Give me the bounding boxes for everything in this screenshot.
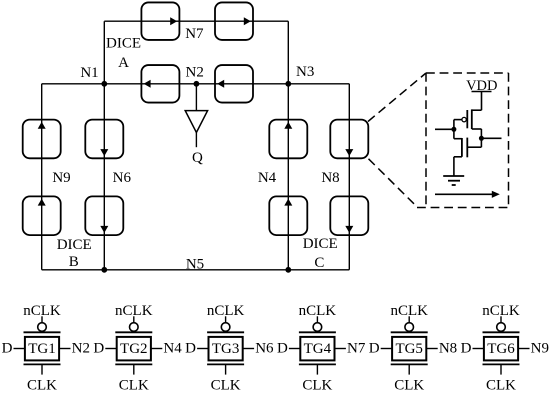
wire: D lead (TG5) bbox=[381, 348, 392, 350]
dashed inset box right edge bbox=[508, 73, 510, 208]
node: inset input junction dot bbox=[451, 127, 456, 132]
transistor NMOS channel line bbox=[461, 138, 463, 157]
svg-text:N6: N6 bbox=[113, 170, 132, 186]
op-amp/inverter triangle (Q driver) bbox=[185, 111, 207, 133]
node N1 junction dot bbox=[101, 81, 107, 87]
TG4 bottom gate plate bbox=[299, 363, 336, 365]
wire: nCLK stem (TG2) bbox=[133, 316, 135, 323]
wire: inverter output to Q bbox=[195, 133, 197, 148]
wire: CLK stem (TG3) bbox=[225, 364, 227, 374]
svg-text:C: C bbox=[314, 255, 324, 271]
dashed callout line upper bbox=[368, 73, 426, 122]
svg-text:N7: N7 bbox=[347, 340, 366, 356]
wire: input vertical bbox=[453, 120, 455, 139]
svg-text:N2: N2 bbox=[72, 340, 90, 356]
junction dot bottom-left (N1 column / N5) bbox=[101, 267, 107, 273]
TG4 top gate plate bbox=[299, 331, 336, 333]
svg-text:TG1: TG1 bbox=[28, 341, 56, 357]
wire: output lead (TG1) bbox=[60, 348, 71, 350]
inverter box N1/N6 column upper (arrow down) bbox=[85, 120, 123, 159]
wire: N2 to inverter input bbox=[195, 84, 197, 111]
transistor NMOS gate line bbox=[466, 138, 468, 158]
inverter box outer-right/N8 column lower (arrow down) bbox=[330, 196, 368, 235]
wire: CLK stem (TG5) bbox=[408, 364, 410, 374]
wire: input to PMOS gate bubble bbox=[454, 119, 462, 121]
svg-text:N9: N9 bbox=[52, 170, 70, 186]
wire: input jog to NMOS channel top bbox=[454, 138, 462, 140]
TG2 top gate plate bbox=[115, 331, 152, 333]
wire: inset input lead bbox=[435, 128, 454, 130]
inverter box N3/N4 column lower (arrow up) bbox=[269, 196, 307, 235]
dashed inset box left edge bbox=[425, 73, 427, 208]
VDD power bar bbox=[472, 91, 492, 93]
wire: outer-left column bbox=[41, 84, 43, 270]
nCLK inverting bubble (TG4) bbox=[313, 323, 322, 332]
transmission gate cell TG5 bbox=[369, 303, 457, 394]
svg-text:D: D bbox=[185, 340, 196, 356]
wire: D lead (TG4) bbox=[289, 348, 300, 350]
wire: nCLK stem (TG1) bbox=[41, 316, 43, 323]
transmission gate cell TG2 bbox=[93, 303, 182, 394]
wire: nCLK stem (TG5) bbox=[408, 316, 410, 323]
inverter box outer-left column lower (arrow up) bbox=[23, 196, 61, 235]
ground symbol bbox=[443, 176, 464, 185]
svg-text:N7: N7 bbox=[185, 26, 204, 42]
svg-text:CLK: CLK bbox=[27, 377, 57, 393]
svg-text:A: A bbox=[118, 55, 129, 71]
wire: output rail vertical bbox=[480, 129, 482, 147]
transmission gate TG1 box bbox=[25, 337, 59, 361]
TG5 top gate plate bbox=[391, 331, 428, 333]
svg-text:CLK: CLK bbox=[211, 377, 241, 393]
wire: nCLK stem (TG3) bbox=[225, 316, 227, 323]
transmission gate cell TG3 bbox=[185, 303, 274, 394]
signal-direction arrow in inset bbox=[435, 191, 500, 198]
transistor PMOS gate line bbox=[466, 110, 468, 128]
svg-text:TG2: TG2 bbox=[120, 341, 148, 357]
wire: N3 column vertical bbox=[287, 21, 289, 270]
svg-text:TG4: TG4 bbox=[304, 341, 332, 357]
TG5 bottom gate plate bbox=[391, 363, 428, 365]
wire: NMOS gate lead to output rail bbox=[467, 146, 481, 148]
TG3 bottom gate plate bbox=[207, 363, 244, 365]
wire: output lead (TG5) bbox=[427, 348, 438, 350]
dashed inset box bottom edge bbox=[417, 207, 509, 209]
svg-text:N5: N5 bbox=[186, 256, 204, 272]
inverter box N1/N6 column lower (arrow down) bbox=[85, 196, 123, 235]
inverter box top-1 (arrow right) bbox=[141, 2, 179, 40]
svg-text:N4: N4 bbox=[163, 340, 182, 356]
TG6 top gate plate bbox=[483, 331, 520, 333]
wire: nCLK stem (TG4) bbox=[316, 316, 318, 323]
TG1 top gate plate bbox=[24, 331, 61, 333]
svg-text:D: D bbox=[369, 340, 380, 356]
nCLK inverting bubble (TG5) bbox=[405, 323, 414, 332]
svg-text:CLK: CLK bbox=[302, 377, 332, 393]
nCLK inverting bubble (TG3) bbox=[221, 323, 230, 332]
svg-text:TG6: TG6 bbox=[487, 341, 515, 357]
wire: top horizontal (N1 riser to N3 riser) bbox=[104, 20, 288, 22]
nCLK inverting bubble (TG2) bbox=[130, 323, 139, 332]
transistor PMOS source stub bbox=[472, 109, 482, 111]
inverter box mid-2 (arrow left) bbox=[215, 65, 253, 103]
wire: output lead (TG2) bbox=[151, 348, 162, 350]
transmission gate TG6 box bbox=[484, 337, 518, 361]
TG1 bottom gate plate bbox=[24, 363, 61, 365]
wire: N1 column vertical bbox=[103, 21, 105, 270]
svg-text:N4: N4 bbox=[258, 170, 277, 186]
wire: CLK stem (TG1) bbox=[41, 364, 43, 374]
wire: CLK stem (TG4) bbox=[316, 364, 318, 374]
wire: D lead (TG6) bbox=[473, 348, 484, 350]
svg-text:TG5: TG5 bbox=[395, 341, 423, 357]
wire: inset output lead bbox=[481, 137, 501, 139]
TG3 top gate plate bbox=[207, 331, 244, 333]
svg-text:N9: N9 bbox=[531, 340, 549, 356]
dashed inset box top edge bbox=[426, 72, 509, 74]
junction dot bottom-right (N3 column / N5) bbox=[285, 267, 291, 273]
TG2 bottom gate plate bbox=[115, 363, 152, 365]
wire: VDD rail down to PMOS source bbox=[481, 92, 483, 111]
svg-text:N8: N8 bbox=[321, 170, 339, 186]
svg-text:N8: N8 bbox=[439, 340, 457, 356]
inverter box outer-left column upper (arrow up) bbox=[23, 120, 61, 159]
wire: NMOS channel bottom jog bbox=[454, 156, 462, 158]
svg-text:D: D bbox=[461, 340, 472, 356]
transistor PMOS channel line bbox=[471, 109, 473, 129]
svg-text:DICE: DICE bbox=[303, 236, 338, 252]
svg-text:N1: N1 bbox=[80, 65, 98, 81]
svg-text:N3: N3 bbox=[296, 64, 314, 80]
transmission gate TG2 box bbox=[117, 337, 151, 361]
wire: output lead (TG6) bbox=[519, 348, 530, 350]
inverter box top-2 (arrow right) bbox=[215, 2, 253, 40]
nCLK inverting bubble (TG1) bbox=[38, 323, 47, 332]
svg-text:N2: N2 bbox=[186, 65, 204, 81]
svg-text:N6: N6 bbox=[255, 340, 274, 356]
wire: outer-right column bbox=[348, 84, 350, 270]
svg-text:DICE: DICE bbox=[106, 36, 141, 52]
transistor PMOS gate bubble bbox=[462, 117, 466, 121]
transmission gate TG5 box bbox=[392, 337, 426, 361]
transmission gate cell TG1 bbox=[2, 303, 90, 394]
svg-text:DICE: DICE bbox=[57, 237, 92, 253]
wire: bottom horizontal N5 bbox=[42, 269, 350, 271]
svg-text:CLK: CLK bbox=[486, 377, 516, 393]
svg-text:CLK: CLK bbox=[394, 377, 424, 393]
wire: D lead (TG3) bbox=[197, 348, 208, 350]
inverter box outer-right/N8 column upper (arrow down) bbox=[330, 120, 368, 159]
wire: output lead (TG4) bbox=[335, 348, 346, 350]
svg-text:CLK: CLK bbox=[119, 377, 149, 393]
transistor PMOS drain stub bbox=[472, 128, 482, 130]
svg-text:D: D bbox=[93, 340, 104, 356]
nCLK inverting bubble (TG6) bbox=[497, 323, 506, 332]
transmission gate TG3 box bbox=[209, 337, 243, 361]
node: inset output junction dot bbox=[479, 136, 484, 141]
svg-text:D: D bbox=[277, 340, 288, 356]
transmission gate TG4 box bbox=[300, 337, 334, 361]
wire: NMOS source down to ground bbox=[453, 157, 455, 176]
wire: middle horizontal N1-N2-N3 row bbox=[42, 83, 350, 85]
TG6 bottom gate plate bbox=[483, 363, 520, 365]
dashed callout line lower bbox=[369, 159, 418, 208]
wire: D lead (TG2) bbox=[105, 348, 116, 350]
wire: CLK stem (TG6) bbox=[500, 364, 502, 374]
svg-text:TG3: TG3 bbox=[212, 341, 240, 357]
inverter box mid-1 (arrow left) bbox=[141, 65, 179, 103]
wire: output lead (TG3) bbox=[243, 348, 254, 350]
node N3 junction dot bbox=[285, 81, 291, 87]
node N2 junction dot bbox=[194, 81, 200, 87]
transmission gate cell TG4 bbox=[277, 303, 366, 394]
transmission gate cell TG6 bbox=[461, 303, 549, 394]
wire: D lead (TG1) bbox=[14, 348, 25, 350]
svg-text:D: D bbox=[2, 340, 13, 356]
inverter box N3/N4 column upper (arrow up) bbox=[269, 120, 307, 159]
wire: CLK stem (TG2) bbox=[133, 364, 135, 374]
svg-text:Q: Q bbox=[192, 150, 203, 166]
svg-text:B: B bbox=[69, 254, 79, 270]
wire: nCLK stem (TG6) bbox=[500, 316, 502, 323]
